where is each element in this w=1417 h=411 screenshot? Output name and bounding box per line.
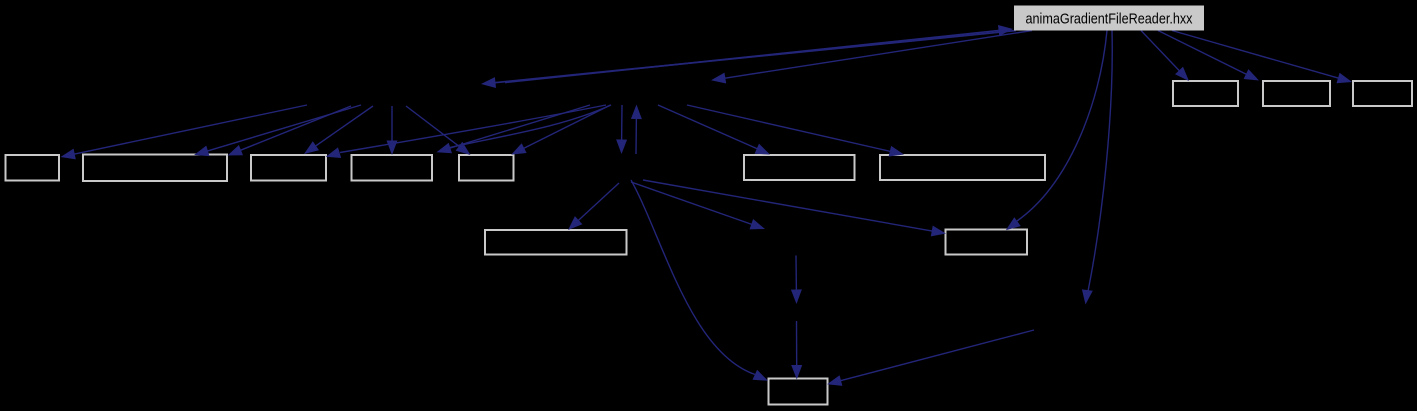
node algorithm	[352, 155, 433, 181]
node itkImageFileReader.h	[83, 155, 227, 182]
edge to box D top	[387, 106, 398, 155]
node itkVectorImage.h	[744, 155, 855, 180]
svg-text:animaGradientFileReader.hxx: animaGradientFileReader.hxx	[1026, 12, 1194, 28]
edge to box H	[1141, 31, 1189, 82]
edge hxx -> hub3 (curved)	[1082, 31, 1112, 305]
node animaGradientFileReader.hxx	[1014, 6, 1204, 31]
edge hub4 -> hub5	[791, 256, 802, 305]
edge to box F	[658, 105, 770, 155]
node itkMatrixOffsetTransformBase.h	[880, 155, 1045, 180]
node itkObject.h	[769, 379, 828, 405]
edge to box B corner	[228, 106, 352, 156]
edge to box A	[61, 105, 308, 159]
edge to box D corner	[437, 105, 591, 153]
edge to box J	[1172, 31, 1352, 84]
edge h->hxx (back include)	[505, 25, 1013, 83]
edge to box C top	[304, 106, 373, 154]
node string	[1263, 81, 1330, 106]
edge hub2 -> hub4	[631, 182, 765, 229]
node map	[1353, 81, 1412, 106]
edge hub1 -> hub2 down	[616, 105, 627, 154]
node stdexcept	[6, 155, 60, 181]
edge hxx -> box L (curved)	[1006, 31, 1107, 231]
edge hub3 -> box M	[827, 330, 1034, 386]
node vector	[459, 155, 514, 181]
edge hxx->h (include)	[481, 31, 1016, 89]
edge to box C corner (curved)	[326, 105, 606, 158]
edge hub2 -> hub1 up	[631, 105, 642, 155]
node itkImageRegionIterator.h	[485, 230, 627, 255]
edge to box B left	[194, 105, 361, 156]
edge to box I	[1158, 31, 1259, 81]
edge hub2 -> box K	[568, 183, 619, 230]
edge hub2 -> box L	[643, 180, 946, 236]
edge hub2 -> box M (curved)	[631, 180, 768, 381]
edge hub5 -> box M	[791, 321, 802, 380]
node cmath	[1173, 81, 1238, 106]
edge to box D corner second line (curved)	[441, 105, 611, 150]
edge hxx->hub right	[711, 31, 1032, 84]
edge to box E topleft	[406, 106, 471, 155]
node itkImage.h	[946, 230, 1028, 255]
edge to box G	[687, 105, 904, 157]
edge to box E corner	[511, 105, 610, 155]
node fstream	[251, 155, 326, 181]
